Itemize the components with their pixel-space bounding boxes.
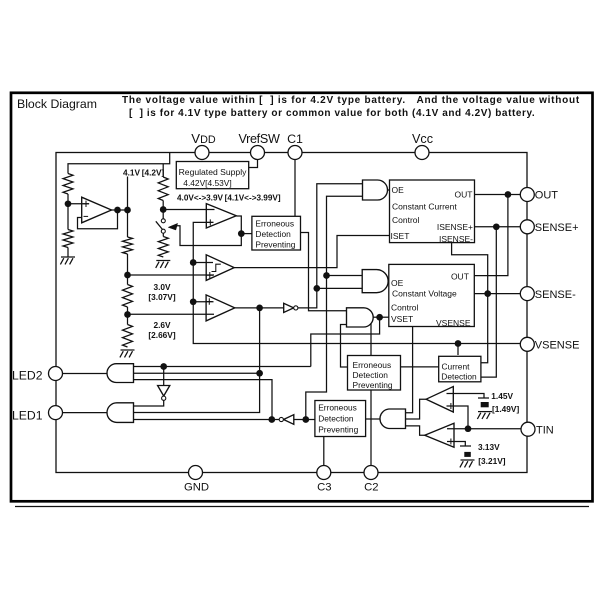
node LED2 middle input xyxy=(256,370,263,377)
Erroneous Detection Preventing box EDP2 xyxy=(348,356,401,391)
wire N2 output to G6 top input xyxy=(134,400,164,406)
svg-text:4.0V<->3.9V [4.1V<->3.99V]: 4.0V<->3.9V [4.1V<->3.99V] xyxy=(177,193,281,202)
inverter N1 after CP2 xyxy=(284,303,294,312)
node LED2 top input xyxy=(160,363,167,370)
wire node to G2 lower input xyxy=(317,287,362,289)
wire G3 output to VSET xyxy=(373,316,389,318)
pin VDD xyxy=(195,146,209,160)
thin rule under figure xyxy=(15,506,589,508)
node TIN xyxy=(465,425,472,432)
svg-text:Detection: Detection xyxy=(318,414,354,424)
Current Detection box xyxy=(439,356,481,382)
Constant Voltage Control box U4 xyxy=(389,264,475,326)
svg-text:Preventing: Preventing xyxy=(255,240,295,250)
wire node to CP1 upper input xyxy=(193,262,213,264)
svg-text:C1: C1 xyxy=(287,132,303,146)
wire VSET node feedback down-left to LED2 logic top line xyxy=(311,317,380,366)
svg-text:Control: Control xyxy=(392,215,420,225)
node SENSE+ xyxy=(493,223,500,230)
svg-text:ISET: ISET xyxy=(391,231,410,241)
svg-text:OUT: OUT xyxy=(455,189,473,199)
svg-text:[3.07V]: [3.07V] xyxy=(148,292,175,302)
wire VDD rail top-left: resistor top to chip top edge xyxy=(68,153,170,174)
wire G1 output to OE of Constant Current Control xyxy=(388,189,390,191)
wire comparator CP4 output to G4 bottom input xyxy=(406,426,425,435)
wire G5 top input line from VSET feedback xyxy=(134,366,311,368)
pin GND xyxy=(189,466,203,480)
comparator CP1 with hysteresis xyxy=(206,255,234,281)
wire N3 input side from EDP3 xyxy=(294,419,315,421)
node VSENSE xyxy=(455,340,462,347)
wire C3 pin up to EDP3 box bottom xyxy=(323,437,325,467)
svg-text:Current: Current xyxy=(442,361,471,371)
resistor R6 xyxy=(123,285,133,308)
wire net B: G1 lower input down to LED logic line xyxy=(306,196,363,419)
wire select arrow to net xyxy=(176,226,193,246)
node G2 upper input tap xyxy=(323,272,330,279)
wire node to CP2 upper input xyxy=(193,301,213,303)
node VSET xyxy=(376,314,383,321)
wire OUT of box U3 to OUT pin xyxy=(475,194,521,196)
svg-text:Constant Current: Constant Current xyxy=(392,202,457,212)
svg-text:3.13V: 3.13V xyxy=(478,442,500,452)
node 3.0V xyxy=(124,272,131,279)
wire U2 feedback loop xyxy=(193,216,241,246)
svg-text:3.0V: 3.0V xyxy=(153,282,171,292)
svg-text:Erroneous: Erroneous xyxy=(318,403,357,413)
svg-text:OUT: OUT xyxy=(535,190,559,202)
svg-text:4.1V [4.2V]: 4.1V [4.2V] xyxy=(123,167,165,177)
wire G2 output to OE of Constant Voltage Control xyxy=(387,280,390,282)
wire G6 bottom input line to inverter N3 xyxy=(134,419,280,421)
wire comparator CP3 output to G4 middle input xyxy=(406,399,427,419)
svg-text:Control: Control xyxy=(391,302,419,312)
Regulated Supply box xyxy=(176,162,248,189)
svg-text:LED2: LED2 xyxy=(12,368,43,382)
wire LED1 pin to gate G6 xyxy=(62,412,108,414)
svg-text:Detection: Detection xyxy=(441,372,477,382)
svg-text:OUT: OUT xyxy=(451,272,469,282)
wire VrefSW pin to Regulated Supply box xyxy=(249,159,258,168)
wire VSENSE sense vertical and line to VSENSE pin xyxy=(193,246,521,344)
wire CP1 output to ISET of Constant Current Control xyxy=(234,236,389,268)
wire 4.1V vertical divider chain xyxy=(127,177,129,238)
pin SENSE- xyxy=(520,287,534,301)
switch SW1 lever xyxy=(156,221,163,229)
comparator CP4 (3.13V, pointing left) xyxy=(425,423,454,447)
svg-text:OE: OE xyxy=(391,278,404,288)
node G2 lower input tap xyxy=(313,285,320,292)
op-amp U2 xyxy=(206,204,236,228)
wire U1 feedback loop xyxy=(78,210,118,229)
node LED1 bottom input xyxy=(268,416,275,423)
resistor R7 xyxy=(123,325,133,348)
svg-text:Erroneous: Erroneous xyxy=(353,360,392,370)
svg-text:The voltage value within [ ]: The voltage value within [ ] is for 4.2V… xyxy=(122,95,580,106)
svg-text:1.45V: 1.45V xyxy=(491,391,513,401)
svg-text:Erroneous: Erroneous xyxy=(255,218,294,228)
ground under R2 xyxy=(61,256,75,258)
AND gate G2 (to OE of U4) xyxy=(362,270,388,293)
wire CP2 output to inverter N1 xyxy=(235,307,284,309)
op-amp U1 xyxy=(82,197,112,223)
Erroneous Detection Preventing box EDP1 xyxy=(252,216,301,250)
wire CP4 lower input to 3.13V reference xyxy=(447,442,465,447)
figure outer border frame xyxy=(11,93,593,502)
node CP2 input tap xyxy=(190,298,197,305)
inverter N3 on LED1 line (pointing left) xyxy=(284,415,294,425)
svg-text:2.6V: 2.6V xyxy=(153,320,171,330)
pin C2 xyxy=(364,466,378,480)
pin C1 xyxy=(288,146,302,160)
pin Vcc xyxy=(415,146,429,160)
wire switch node to op-amp U2 upper input xyxy=(163,209,214,211)
node CP2 output xyxy=(256,305,263,312)
ground under R7 xyxy=(121,349,135,351)
svg-text:LED1: LED1 xyxy=(12,408,43,422)
svg-text:SENSE-: SENSE- xyxy=(535,289,576,301)
AND gate G3 (to VSET) xyxy=(347,308,374,327)
wire Current Detection to EDP2 box xyxy=(401,366,439,368)
wire node to op-amp U1 + input xyxy=(68,203,89,205)
wire C2 pin up through EDP2 to G3 bottom input xyxy=(370,322,372,466)
node U2 output to EDP1 xyxy=(238,230,245,237)
wire box U4 bottom down to G4 top input xyxy=(406,327,413,413)
comparator CP2 xyxy=(206,295,235,321)
wire node to G2 upper input xyxy=(327,275,363,277)
svg-text:Detection: Detection xyxy=(255,229,291,239)
wire 2.6V node to comparator CP2 lower input xyxy=(128,313,215,315)
wire 3.0V node to comparator CP1 + input xyxy=(128,274,215,276)
wire op-amp U1 output to 4.1V node xyxy=(110,209,128,211)
ground of 1.45V reference xyxy=(478,411,492,413)
wire VSENSE node down into Current Detection box xyxy=(457,344,459,356)
svg-text:Block Diagram: Block Diagram xyxy=(17,97,97,111)
node U1 feedback xyxy=(114,207,121,214)
wire CP3 upper input to 1.45V reference xyxy=(447,394,485,399)
svg-text:[3.21V]: [3.21V] xyxy=(478,456,505,466)
node CP1 input tap xyxy=(190,259,197,266)
svg-text:Detection: Detection xyxy=(353,370,389,380)
wire ISENSE+ to SENSE+ pin xyxy=(475,226,521,228)
Erroneous Detection Preventing box EDP3 xyxy=(315,401,366,437)
wire EDP3 to gate G4 xyxy=(366,418,380,420)
svg-text:VSENSE: VSENSE xyxy=(535,340,580,352)
svg-text:Vcc: Vcc xyxy=(412,132,433,146)
svg-text:ISENSE-: ISENSE- xyxy=(439,234,473,244)
pin SENSE+ xyxy=(520,220,534,234)
pin OUT xyxy=(520,188,534,202)
wire LED2 pin to gate G5 xyxy=(62,373,108,375)
arrowhead pointing at switch xyxy=(168,223,177,230)
gate G4 near TIN (mirrored) xyxy=(380,409,406,429)
wire EDP2 output to G3 lower input xyxy=(341,325,348,368)
wire CP2 output vertical down to G6 middle input xyxy=(134,308,260,413)
node OUT xyxy=(505,191,512,198)
pin VSENSE xyxy=(520,337,534,351)
pin C3 xyxy=(317,466,331,480)
resistor R2 xyxy=(63,230,73,248)
svg-text:[2.66V]: [2.66V] xyxy=(148,330,175,340)
wire TIN line to TIN pin xyxy=(447,428,522,430)
wire SENSE- line from box U4 to SENSE- pin xyxy=(474,293,521,295)
resistor R5 xyxy=(123,237,133,254)
svg-text:ISENSE+: ISENSE+ xyxy=(437,222,473,232)
svg-text:Preventing: Preventing xyxy=(318,425,358,435)
comparator CP3 (1.45V, pointing left) xyxy=(426,387,453,413)
node SENSE- xyxy=(484,290,491,297)
svg-text:Preventing: Preventing xyxy=(353,380,393,390)
svg-text:VSENSE: VSENSE xyxy=(436,318,471,328)
wire N1 output up to AND G1 upper input and G2 lower input xyxy=(298,184,363,308)
svg-text:4.42V[4.53V]: 4.42V[4.53V] xyxy=(183,178,231,188)
resistor R3 xyxy=(158,177,168,201)
3.13V reference battery symbol xyxy=(460,445,471,447)
LED1 driver gate G6 (mirrored) xyxy=(107,403,133,423)
wire OUT node down to Constant Voltage Control OUT xyxy=(474,195,508,276)
inverter N2 below LED2 line (pointing down) xyxy=(158,386,170,397)
IC chip boundary rectangle xyxy=(56,153,527,473)
wire G5 bottom input line down to LED1 bottom line xyxy=(134,380,273,420)
node EDP3 input line xyxy=(302,416,309,423)
node switch top xyxy=(160,206,167,213)
wire SENSE+ node down to Current Detection box xyxy=(481,227,496,377)
AND gate G1 (to OE of U3) xyxy=(363,180,388,200)
wire R3 leads and switch chain xyxy=(162,164,164,177)
1.45V reference battery symbol xyxy=(478,397,489,399)
pin LED1 xyxy=(49,406,63,420)
wire CP3 lower input down to TIN line xyxy=(447,406,469,429)
svg-text:VrefSW: VrefSW xyxy=(238,132,280,146)
pin TIN xyxy=(521,422,535,436)
ground of 3.13V reference xyxy=(461,459,475,461)
wire node down to inverter N2 xyxy=(163,367,165,386)
svg-text:GND: GND xyxy=(184,482,209,494)
node 2.6V xyxy=(124,311,131,318)
svg-text:C3: C3 xyxy=(317,482,331,494)
ground under R4 xyxy=(156,260,170,262)
resistor R1 xyxy=(63,174,73,195)
wire EDP1 output down to G3 upper input xyxy=(301,233,347,311)
wire R1 bottom to R2 top through node xyxy=(67,194,69,230)
LED2 driver gate G5 (mirrored) xyxy=(107,364,134,383)
svg-text:Regulated Supply: Regulated Supply xyxy=(179,167,248,177)
node R1-R2 divider xyxy=(65,200,72,207)
svg-text:Constant Voltage: Constant Voltage xyxy=(392,288,457,298)
svg-text:OE: OE xyxy=(392,185,405,195)
svg-text:C2: C2 xyxy=(364,482,378,494)
svg-text:[ ] is for 4.1V type battery: [ ] is for 4.1V type battery or common v… xyxy=(129,108,535,119)
svg-text:TIN: TIN xyxy=(536,424,554,436)
wire U2 node to EDP1 box xyxy=(241,233,252,235)
svg-text:VDD: VDD xyxy=(191,131,216,146)
svg-text:SENSE+: SENSE+ xyxy=(535,222,579,234)
resistor R4 xyxy=(158,237,168,258)
Constant Current Control box U3 xyxy=(390,180,475,243)
wire ISENSE- down and over to SENSE- node xyxy=(452,243,488,363)
pin VrefSW xyxy=(251,146,265,160)
svg-text:[1.49V]: [1.49V] xyxy=(492,404,519,414)
switch SW1 contact circles xyxy=(161,219,165,223)
wire G5 middle input from CP2 output net xyxy=(134,372,260,374)
pin LED2 xyxy=(49,367,63,381)
node 4.1V line xyxy=(124,207,131,214)
svg-text:VSET: VSET xyxy=(391,314,413,324)
wire C1 pin down to EDP1 box top xyxy=(294,159,296,217)
